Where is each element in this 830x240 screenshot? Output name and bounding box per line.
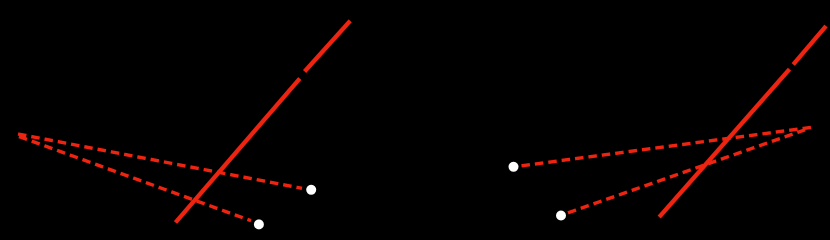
left solid red line, upper segment xyxy=(305,21,351,72)
left dashed ray to upper-right dot xyxy=(18,134,302,188)
right dashed ray from upper-left dot xyxy=(522,127,813,166)
right panel lower white dot xyxy=(556,211,566,221)
right solid red line, lower segment xyxy=(659,69,789,217)
left panel lower white dot xyxy=(254,219,264,229)
left panel upper white dot xyxy=(306,185,316,195)
left dashed ray to lower dot xyxy=(19,137,251,221)
right dashed ray from lower dot xyxy=(568,130,805,213)
right solid red line, upper segment xyxy=(793,26,826,65)
left solid red line, lower segment xyxy=(176,79,300,223)
right panel upper white dot xyxy=(509,162,519,172)
